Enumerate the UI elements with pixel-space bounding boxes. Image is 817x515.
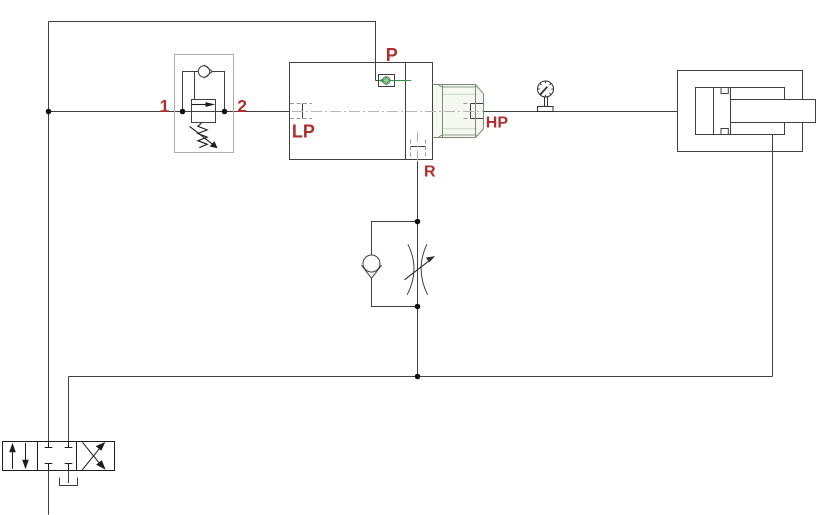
svg-text:LP: LP	[292, 122, 315, 142]
svg-text:HP: HP	[486, 115, 509, 132]
svg-text:1: 1	[160, 96, 170, 116]
svg-text:2: 2	[237, 96, 247, 116]
svg-text:R: R	[424, 164, 436, 181]
svg-text:P: P	[386, 45, 398, 65]
